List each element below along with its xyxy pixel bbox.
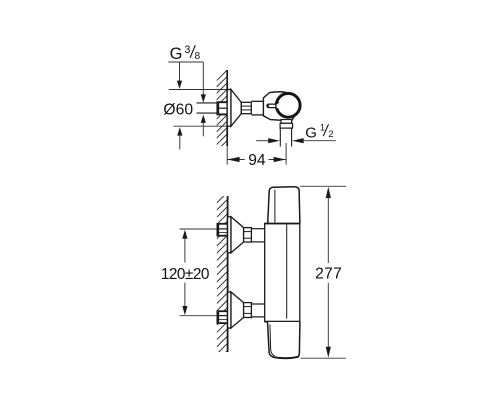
277 extension line top — [300, 185, 346, 187]
upper connection nut — [244, 228, 252, 242]
inlet tube to valve body — [251, 101, 263, 115]
dimension 94 — [227, 152, 286, 169]
step line under cap — [265, 223, 300, 225]
outlet nut under body — [281, 120, 292, 124]
lower arrow stem (x=179.8, up to bottom ext line) — [177, 127, 182, 149]
120±20 extension line upper — [180, 228, 218, 230]
lower inlet tube into body — [251, 304, 264, 317]
outlet flange — [280, 123, 293, 128]
svg-text:G: G — [170, 45, 183, 63]
wall extension line down to 94 dim — [226, 146, 228, 165]
lower escutcheon cone — [231, 292, 244, 328]
svg-text:277: 277 — [315, 266, 342, 283]
leader stem with arrow (x=179.5, down to top ext line) — [177, 62, 182, 89]
bottom cap inner highlight — [270, 325, 275, 356]
wall line (top view) — [226, 70, 228, 146]
wall hatching (top view) — [217, 70, 228, 157]
svg-text:G: G — [305, 124, 317, 141]
leader stem with arrow (x=203.3, down to pipe) — [201, 62, 206, 103]
valve body (top view) — [263, 92, 298, 121]
escutcheon cone (top view) — [231, 90, 241, 127]
120±20 dimension line + arrows — [161, 230, 209, 316]
lower hex nipple — [217, 311, 227, 324]
leader underline of G 3/8 — [168, 61, 203, 63]
cap inner highlight line — [274, 190, 276, 223]
120±20 extension line lower — [180, 315, 218, 317]
step line above bottom cap — [265, 321, 301, 323]
lower escutcheon plate — [228, 292, 231, 328]
body inner highlight line — [286, 224, 288, 318]
277 extension line bottom — [301, 357, 346, 359]
upper inlet tube into body — [251, 229, 264, 242]
upper escutcheon cone — [231, 217, 244, 253]
top cap of body — [268, 187, 300, 224]
wall hatching (front view) — [217, 192, 228, 368]
svg-text:2: 2 — [328, 129, 333, 139]
svg-text:Ø60: Ø60 — [163, 102, 193, 119]
lever tab on handle — [267, 102, 279, 110]
svg-text:3: 3 — [184, 44, 190, 56]
bottom cap heavy bottom edge — [273, 357, 299, 358]
Ø60 extension line bottom — [174, 125, 228, 127]
svg-text:94: 94 — [248, 152, 266, 169]
svg-text:1: 1 — [320, 121, 325, 132]
277 dimension line + arrows — [315, 187, 342, 358]
outlet pipe G1/2 — [280, 128, 291, 146]
G 1/2 label — [305, 121, 333, 141]
wall line (front view) — [227, 196, 229, 352]
svg-text:8: 8 — [195, 51, 201, 62]
upper hex nipple — [217, 223, 227, 236]
thermostat body: main cylinder — [265, 224, 300, 322]
G 1/2 caliper arrows — [256, 138, 336, 143]
lower arrow stem (x=203.3, up to pipe bottom) — [201, 115, 206, 137]
G 3/8 label — [170, 44, 201, 63]
upper escutcheon plate — [228, 217, 231, 253]
supply pipe stub — [197, 103, 218, 113]
escutcheon plate (top view) — [227, 90, 231, 127]
lower connection nut — [244, 303, 252, 318]
pipe centre extension line — [285, 143, 287, 165]
hex nipple G3/8 in wall — [217, 102, 227, 116]
Ø60 extension line top — [169, 89, 227, 91]
svg-text:120±20: 120±20 — [161, 266, 209, 283]
bottom cap of body — [268, 322, 300, 358]
handle ring (top view) — [276, 93, 300, 117]
connection nut (top view) — [241, 102, 251, 113]
